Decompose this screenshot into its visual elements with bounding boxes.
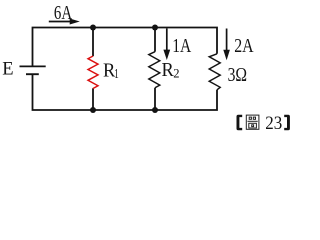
resistor 3 ohm bbox=[209, 54, 220, 90]
current arrow 2A bbox=[223, 29, 253, 61]
battery E plates bbox=[20, 66, 46, 74]
svg-text:1A: 1A bbox=[172, 36, 191, 57]
svg-text:6A: 6A bbox=[54, 3, 72, 24]
resistor R1 (red zigzag) bbox=[88, 56, 98, 89]
caption figure 23 bbox=[237, 113, 290, 134]
svg-text:2: 2 bbox=[173, 66, 179, 81]
wire upper loop: battery top plate, up, across top, down to 3-ohm bbox=[33, 28, 218, 67]
svg-text:3Ω: 3Ω bbox=[228, 64, 248, 86]
svg-text:1: 1 bbox=[114, 67, 119, 82]
glyph tu (figure) bbox=[246, 115, 259, 129]
current arrow 1A bbox=[163, 29, 191, 61]
svg-text:R: R bbox=[162, 60, 174, 81]
junction node top R1 bbox=[90, 25, 96, 31]
resistor R2 bbox=[149, 52, 160, 88]
wire R1 lower lead bbox=[92, 88, 94, 110]
wire R2 upper lead bbox=[154, 28, 156, 52]
svg-text:E: E bbox=[2, 59, 13, 80]
svg-text:2A: 2A bbox=[234, 36, 253, 57]
junction node top R2 bbox=[152, 25, 158, 31]
wire R2 lower lead bbox=[154, 88, 156, 110]
svg-text:23: 23 bbox=[265, 113, 282, 134]
junction node bottom R2 bbox=[152, 107, 158, 113]
current arrow 6A bbox=[49, 3, 80, 25]
junction node bottom R1 bbox=[90, 107, 96, 113]
bracket left bbox=[237, 115, 243, 131]
wire lower loop: battery bottom plate, down, across bottom, up to 3-ohm bbox=[33, 74, 218, 110]
wire R1 upper lead bbox=[92, 28, 94, 57]
bracket right bbox=[284, 115, 290, 131]
